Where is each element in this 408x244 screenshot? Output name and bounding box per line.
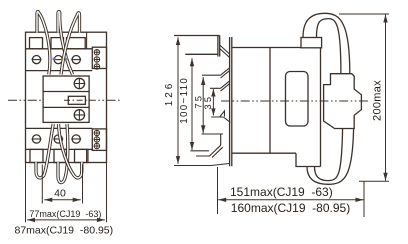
body divider (269, 48, 271, 154)
dim 35 line (212, 89, 214, 115)
center block screw bottom (74, 110, 84, 120)
svg-text:160max(CJ19 -80.95): 160max(CJ19 -80.95) (231, 201, 350, 215)
dim 100~110 line (191, 58, 193, 150)
bottom step box (296, 153, 321, 166)
mounting plate (230, 37, 232, 166)
top terminal square 1 (30, 38, 43, 49)
top cable arch outer (303, 13, 350, 73)
dim 75 line (202, 77, 204, 133)
top main screw 2 (54, 56, 62, 64)
dim 200max bottom ref line (359, 180, 389, 182)
clip at 88 level (210, 81, 230, 91)
centerline through nameplate (64, 99, 90, 101)
top main screw 1 (32, 56, 40, 64)
svg-text:100~110: 100~110 (179, 77, 190, 124)
center block (43, 76, 89, 122)
ledge at 134 level (202, 134, 224, 145)
bottom wire 1 (36, 124, 53, 178)
body right edge (320, 48, 322, 167)
bottom main screw 3 (72, 135, 80, 143)
top cable arch inner (317, 19, 341, 74)
bottom cable U outer (307, 129, 354, 185)
top aux screw 1 (94, 50, 100, 56)
body step line bottom (86, 149, 88, 162)
top wire 2 (58, 12, 73, 75)
bottom main screw 1 (32, 135, 40, 143)
top aux screw 3 (94, 64, 100, 70)
top main screw 3 (72, 56, 80, 64)
top mounting ledge (174, 36, 220, 57)
bottom dim extension lines (218, 167, 365, 217)
bottom main screw 2 (54, 135, 62, 143)
svg-text:126: 126 (164, 81, 175, 106)
body outline front (26, 32, 107, 162)
svg-text:40: 40 (54, 188, 66, 200)
blue artifact dots (53, 58, 69, 61)
svg-text:77max(CJ19 -63): 77max(CJ19 -63) (29, 209, 101, 219)
centerline front view (8, 99, 120, 101)
bottom terminal square 2 (54, 149, 67, 162)
bottom aux screw 2 (94, 137, 100, 143)
dim 200max line (385, 15, 387, 181)
centerline side view (221, 100, 368, 102)
center block inner lines (43, 92, 89, 108)
top clip diagonals (220, 45, 230, 58)
top terminal square 2 (51, 38, 64, 49)
top wire 1 (37, 12, 50, 75)
dim 77max line (27, 219, 105, 221)
top auxiliary strip (92, 47, 106, 68)
body side extension lines (26, 163, 107, 223)
bottom terminal square 1 (30, 149, 43, 162)
dim 151max line (218, 199, 363, 201)
bottom wire 2 (58, 124, 68, 183)
bottom aux screw 1 (94, 130, 100, 136)
dim 126 line (177, 37, 179, 164)
plate foot line (174, 164, 230, 166)
svg-text:151max(CJ19 -63): 151max(CJ19 -63) (230, 185, 333, 199)
bottom terminal band lines (26, 128, 93, 149)
dim 200max top ref line (339, 13, 389, 15)
bottom auxiliary strip (92, 129, 106, 151)
svg-text:200max: 200max (371, 80, 383, 121)
bottom wire 3 (59, 124, 82, 178)
nameplate rect on centerline (68, 96, 85, 104)
dim 40 line (44, 199, 80, 201)
dim 77max arrows (27, 218, 105, 222)
top wire 3 (61, 13, 80, 75)
svg-text:87max(CJ19 -80.95): 87max(CJ19 -80.95) (15, 225, 114, 237)
body bottom edge (232, 152, 296, 154)
clip at 115 level (211, 111, 230, 122)
bottom aux screw 3 (94, 143, 100, 149)
window rounded rect (286, 72, 309, 127)
top terminal square 3 (67, 38, 86, 49)
bottom cable U inner (315, 129, 343, 181)
clip at 150 level (190, 145, 222, 157)
clip at 75 level (202, 68, 230, 78)
center block screw top (74, 78, 84, 88)
body step line top (86, 32, 88, 49)
top aux screw 2 (94, 57, 100, 63)
dim 40 extension lines (42, 165, 82, 204)
top terminal box (301, 38, 322, 48)
body top edge (232, 47, 301, 49)
resistor box (324, 74, 362, 129)
svg-text:35: 35 (203, 95, 214, 110)
bottom terminal square 3 (75, 149, 88, 162)
top terminal band lines (26, 49, 93, 71)
dim 40 arrows (44, 198, 80, 202)
